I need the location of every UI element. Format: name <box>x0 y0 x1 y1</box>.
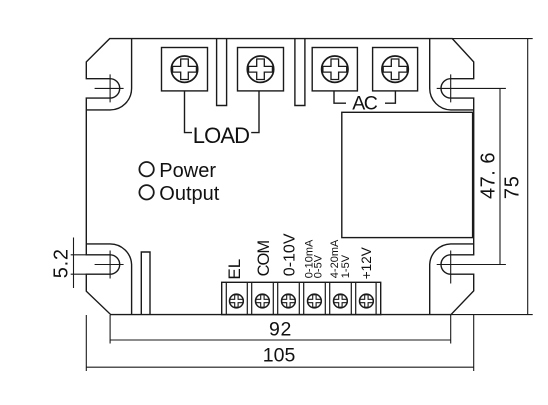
strip screw 5 (4-20mA/1-5V) <box>334 294 348 308</box>
strip screw 6 (+12V) <box>360 294 374 308</box>
dimension line 5.2 <box>73 238 75 289</box>
LOAD leader line left <box>185 91 193 133</box>
separator bar between T1 and T2 <box>217 39 227 106</box>
extension line bottom edge for 75 <box>451 314 533 316</box>
terminal square T4 (AC right) <box>373 48 418 91</box>
centerlines, top-left slot <box>95 74 124 102</box>
raised-body step outline, top-right flange <box>430 39 474 110</box>
dimension line 75 <box>527 39 529 315</box>
strip screw 1 (EL) <box>230 294 244 308</box>
raised-body step outline, bottom-left flange <box>86 244 131 315</box>
extension lines for 92 <box>110 315 451 344</box>
terminal square T2 (LOAD right) <box>238 48 284 91</box>
strip screw 3 (0-10V) <box>282 294 296 308</box>
body outline with chamfered corners and corner mounting slots <box>86 39 473 315</box>
AC leader line right <box>385 91 395 103</box>
svg-text:COM: COM <box>255 241 273 277</box>
screw of T1 <box>171 56 197 82</box>
dimension line 105 <box>86 366 473 368</box>
dimension line 92 <box>110 339 451 341</box>
strip screw 2 (COM) <box>256 294 270 308</box>
LOAD leader line right <box>251 91 259 133</box>
strip inner wall lines <box>226 282 376 314</box>
svg-text:75: 75 <box>502 175 524 199</box>
screw of T2 <box>247 56 273 82</box>
extension line top edge for 75 <box>452 38 532 40</box>
AC leader line left <box>334 91 346 103</box>
extension lines for 105 <box>86 315 473 371</box>
svg-text:92: 92 <box>269 319 292 341</box>
raised-body step outline, top-left flange <box>86 39 131 110</box>
centerlines, bottom-right slot (horizontal doubles as 47.6 extension line) <box>437 251 506 284</box>
extension lines for 5.2 slot width dimension <box>71 255 87 274</box>
svg-text:Output: Output <box>159 183 219 205</box>
svg-text:105: 105 <box>263 345 296 367</box>
dimension line 47.6 <box>499 88 501 264</box>
svg-text:0-10V: 0-10V <box>282 233 299 276</box>
svg-text:Power: Power <box>159 160 216 182</box>
svg-text:5.2: 5.2 <box>50 248 72 278</box>
Power indicator circle <box>139 162 153 176</box>
svg-text:AC: AC <box>352 92 378 114</box>
bottom terminal strip outer box <box>222 282 381 314</box>
screw of T4 <box>382 56 408 82</box>
Output indicator circle <box>139 185 153 199</box>
svg-text:+12V: +12V <box>359 247 374 279</box>
terminal square T1 (LOAD left) <box>162 48 208 91</box>
svg-text:0-5V: 0-5V <box>313 254 325 278</box>
svg-text:47. 6: 47. 6 <box>477 152 499 199</box>
rib bar near bottom-left <box>141 252 150 315</box>
strip screw 4 (0-10mA/0-5V) <box>308 294 322 308</box>
centerlines, top-right slot (horizontal doubles as 47.6 extension line) <box>437 74 506 102</box>
svg-text:1-5V: 1-5V <box>340 254 352 278</box>
terminal square T3 (AC left) <box>312 48 357 91</box>
svg-text:EL: EL <box>225 259 244 280</box>
separator bar between T2 and T3 <box>295 39 305 106</box>
svg-text:LOAD: LOAD <box>193 123 249 148</box>
svg-text:4-20mA: 4-20mA <box>329 239 341 278</box>
raised-body step outline, bottom-right flange <box>430 244 474 315</box>
centerlines, bottom-left slot <box>95 251 124 279</box>
screw of T3 <box>322 56 348 82</box>
heatsink plate rectangle <box>342 112 473 237</box>
